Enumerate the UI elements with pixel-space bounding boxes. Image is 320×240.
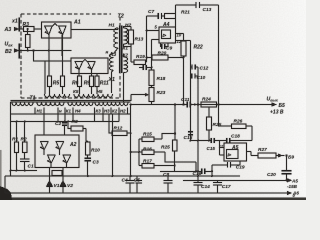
node R21 right riser xyxy=(175,5,177,27)
left drop from T1 xyxy=(10,114,12,171)
scan border left xyxy=(0,150,2,200)
output arrow B5 xyxy=(272,102,277,106)
diode V2 xyxy=(62,176,64,193)
rail junction dots xyxy=(112,175,114,177)
node at R3/R4 xyxy=(27,28,29,30)
feedback riser wire xyxy=(146,16,148,62)
resistor R11 vertical xyxy=(95,76,99,87)
capacitor C1 xyxy=(20,159,29,162)
lower link wire xyxy=(160,162,212,171)
resistor R13 xyxy=(128,30,133,44)
transistor V.3 of A2 xyxy=(47,155,56,163)
transistor V.1 of A3 xyxy=(75,62,84,70)
scan border bottom xyxy=(0,197,306,200)
transistor module A3 (lower driver pair) xyxy=(71,58,108,74)
H2 top wire to R13 xyxy=(124,27,132,31)
transistor V.1 of A1 xyxy=(44,26,53,35)
T1 terminal row base line xyxy=(11,113,131,115)
A2 internal drops xyxy=(44,150,66,176)
wire bus down to R26 xyxy=(219,105,232,127)
bottom common rail xyxy=(5,192,288,194)
rail -15V xyxy=(183,179,291,181)
output arrow A6 xyxy=(287,191,292,195)
T1 secondary winding row c xyxy=(68,102,93,105)
node R4 bottom xyxy=(27,49,29,51)
K2 winding bottom down to T1 xyxy=(123,73,125,102)
resistor R23 vertical (with tap arrow) xyxy=(149,87,154,101)
dashed enclosure of inverter module xyxy=(21,14,120,98)
A5 inner symbol xyxy=(226,150,238,159)
T1 drops to base wire xyxy=(44,105,131,177)
T1 core xyxy=(11,101,131,102)
pin B2 arrow xyxy=(14,48,19,52)
transistor V.1 of A2 xyxy=(40,142,49,150)
small resistor on rail between diodes xyxy=(52,171,62,176)
resistor R18 vertical xyxy=(149,70,154,86)
wire R3 to A1 xyxy=(34,28,42,30)
transistor V.2 of A1 xyxy=(58,26,67,35)
transistor V.2 of A2 xyxy=(56,142,65,150)
T1 secondary winding row b xyxy=(37,102,64,105)
T1 terminal ticks xyxy=(11,102,131,114)
resistor R5 vertical xyxy=(47,76,51,87)
divider riser C12/C10 left rail xyxy=(190,41,192,142)
scan corner blob bottom-left xyxy=(0,186,12,200)
A1 emitter leg right down xyxy=(61,35,63,56)
power module A2 xyxy=(35,135,79,168)
A1 collector wire to T2 xyxy=(71,29,114,31)
output bus +13V xyxy=(131,104,276,106)
divider right rail xyxy=(197,67,199,176)
riser x212 xyxy=(211,165,213,176)
A5 pin right xyxy=(247,152,252,156)
connector pin bar A3 xyxy=(18,18,20,32)
coupling link inside A1 xyxy=(53,24,58,26)
capacitor C6 xyxy=(139,67,152,69)
coupling link inside A3 xyxy=(83,59,87,61)
T1 secondary winding row a xyxy=(12,102,33,105)
T1 secondary winding row d xyxy=(95,102,128,105)
connector pin bar B2 xyxy=(18,44,20,59)
T1 primary winding row (upper) xyxy=(45,94,70,97)
capacitor C13 xyxy=(196,2,200,8)
diode V1 xyxy=(49,176,51,193)
bus junction nodes xyxy=(194,103,196,105)
top wire with C13 xyxy=(176,5,219,104)
wire B2 rail xyxy=(19,50,71,52)
A1 emitter leg left down to R5 xyxy=(48,35,50,76)
paper background xyxy=(0,0,306,200)
T2 core xyxy=(120,26,122,74)
base wire under T1 xyxy=(11,121,120,123)
resistor R4 vertical xyxy=(27,29,29,51)
node wire above diodes xyxy=(11,170,38,172)
A4 inner symbol xyxy=(161,30,170,39)
resistor R28 below R24 xyxy=(208,107,210,141)
base drive wire to driver pair xyxy=(34,51,72,62)
capacitor C12 xyxy=(191,66,199,68)
capacitor C3 xyxy=(84,158,90,161)
transistor V.4 of A2 xyxy=(63,155,72,163)
capacitor C15b in feed wire xyxy=(211,138,214,143)
transistor V.2 of A3 xyxy=(87,62,96,70)
resistor R7 vertical (unlabeled) xyxy=(60,76,64,87)
A5 feed wire xyxy=(191,140,253,142)
capacitor C9 under A4 xyxy=(161,43,169,47)
legs from A3 down to resistors xyxy=(63,35,97,76)
pin A3 arrow xyxy=(14,27,19,31)
output arrow B4 xyxy=(278,153,283,157)
leads resistors to winding row xyxy=(50,87,98,94)
output arrow A5 xyxy=(287,178,292,182)
wire A3 to R3 xyxy=(19,28,23,30)
zero rail xyxy=(5,175,240,177)
capacitor C10 xyxy=(191,75,199,77)
A4 pin 9 xyxy=(152,40,160,70)
drop to T1 primary tap xyxy=(44,61,46,94)
